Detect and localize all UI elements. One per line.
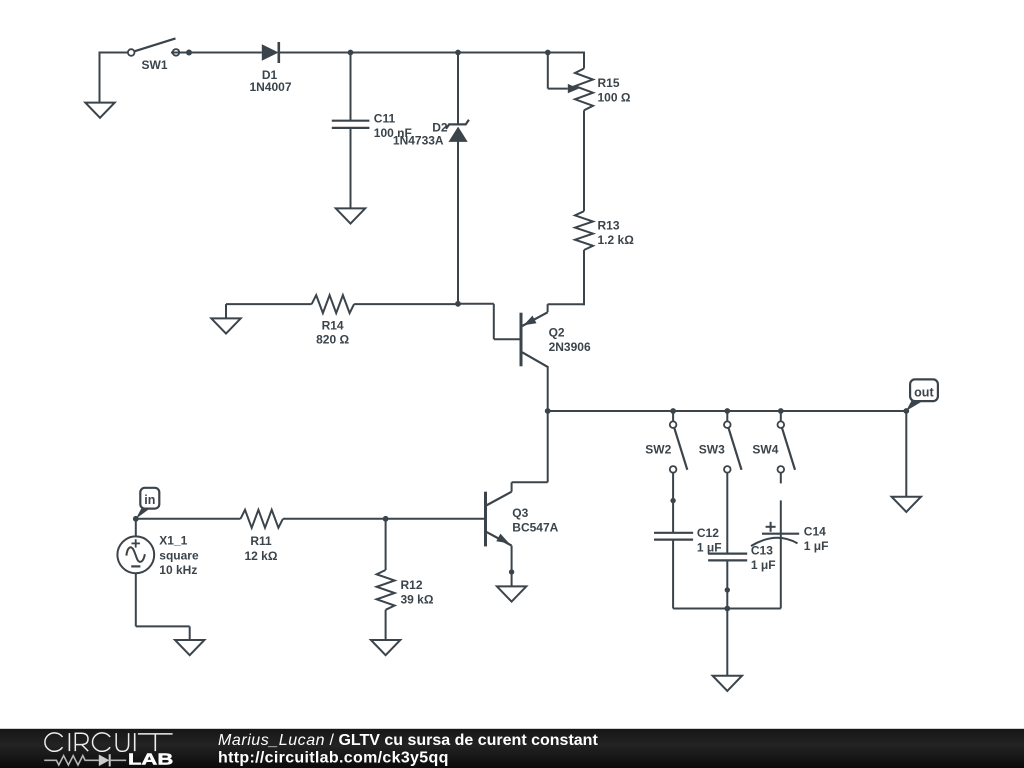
svg-text:1N4733A: 1N4733A: [393, 134, 444, 148]
svg-text:SW1: SW1: [142, 58, 168, 72]
svg-text:C13: C13: [751, 543, 773, 557]
svg-text:100 Ω: 100 Ω: [598, 90, 631, 104]
svg-text:in: in: [144, 493, 155, 507]
svg-text:10 kHz: 10 kHz: [159, 563, 197, 577]
svg-text:1.2 kΩ: 1.2 kΩ: [598, 233, 635, 247]
svg-text:Marius_Lucan / GLTV cu sursa d: Marius_Lucan / GLTV cu sursa de curent c…: [218, 732, 598, 749]
svg-text:BC547A: BC547A: [512, 520, 558, 534]
svg-text:LAB: LAB: [128, 752, 173, 768]
svg-text:C12: C12: [697, 526, 719, 540]
svg-text:SW3: SW3: [699, 443, 725, 457]
svg-text:Q2: Q2: [549, 326, 565, 340]
svg-text:X1_1: X1_1: [159, 534, 187, 548]
svg-text:Q3: Q3: [512, 506, 528, 520]
svg-text:C11: C11: [374, 111, 396, 125]
svg-text:R14: R14: [322, 318, 344, 332]
svg-text:1 μF: 1 μF: [804, 539, 829, 553]
svg-text:820 Ω: 820 Ω: [316, 332, 349, 346]
svg-text:R13: R13: [598, 219, 620, 233]
svg-text:R12: R12: [401, 578, 423, 592]
svg-text:square: square: [159, 549, 199, 563]
svg-text:R15: R15: [598, 76, 620, 90]
svg-text:SW2: SW2: [645, 443, 671, 457]
svg-text:http://circuitlab.com/ck3y5qq: http://circuitlab.com/ck3y5qq: [218, 750, 449, 767]
svg-text:12 kΩ: 12 kΩ: [245, 549, 278, 563]
svg-text:1N4007: 1N4007: [249, 80, 291, 94]
svg-text:out: out: [914, 385, 934, 399]
svg-text:2N3906: 2N3906: [549, 340, 591, 354]
svg-text:C14: C14: [804, 524, 826, 538]
svg-text:39 kΩ: 39 kΩ: [401, 592, 434, 606]
svg-text:R11: R11: [250, 534, 272, 548]
svg-text:1 μF: 1 μF: [751, 558, 776, 572]
svg-text:D2: D2: [432, 120, 448, 134]
svg-text:SW4: SW4: [752, 443, 778, 457]
